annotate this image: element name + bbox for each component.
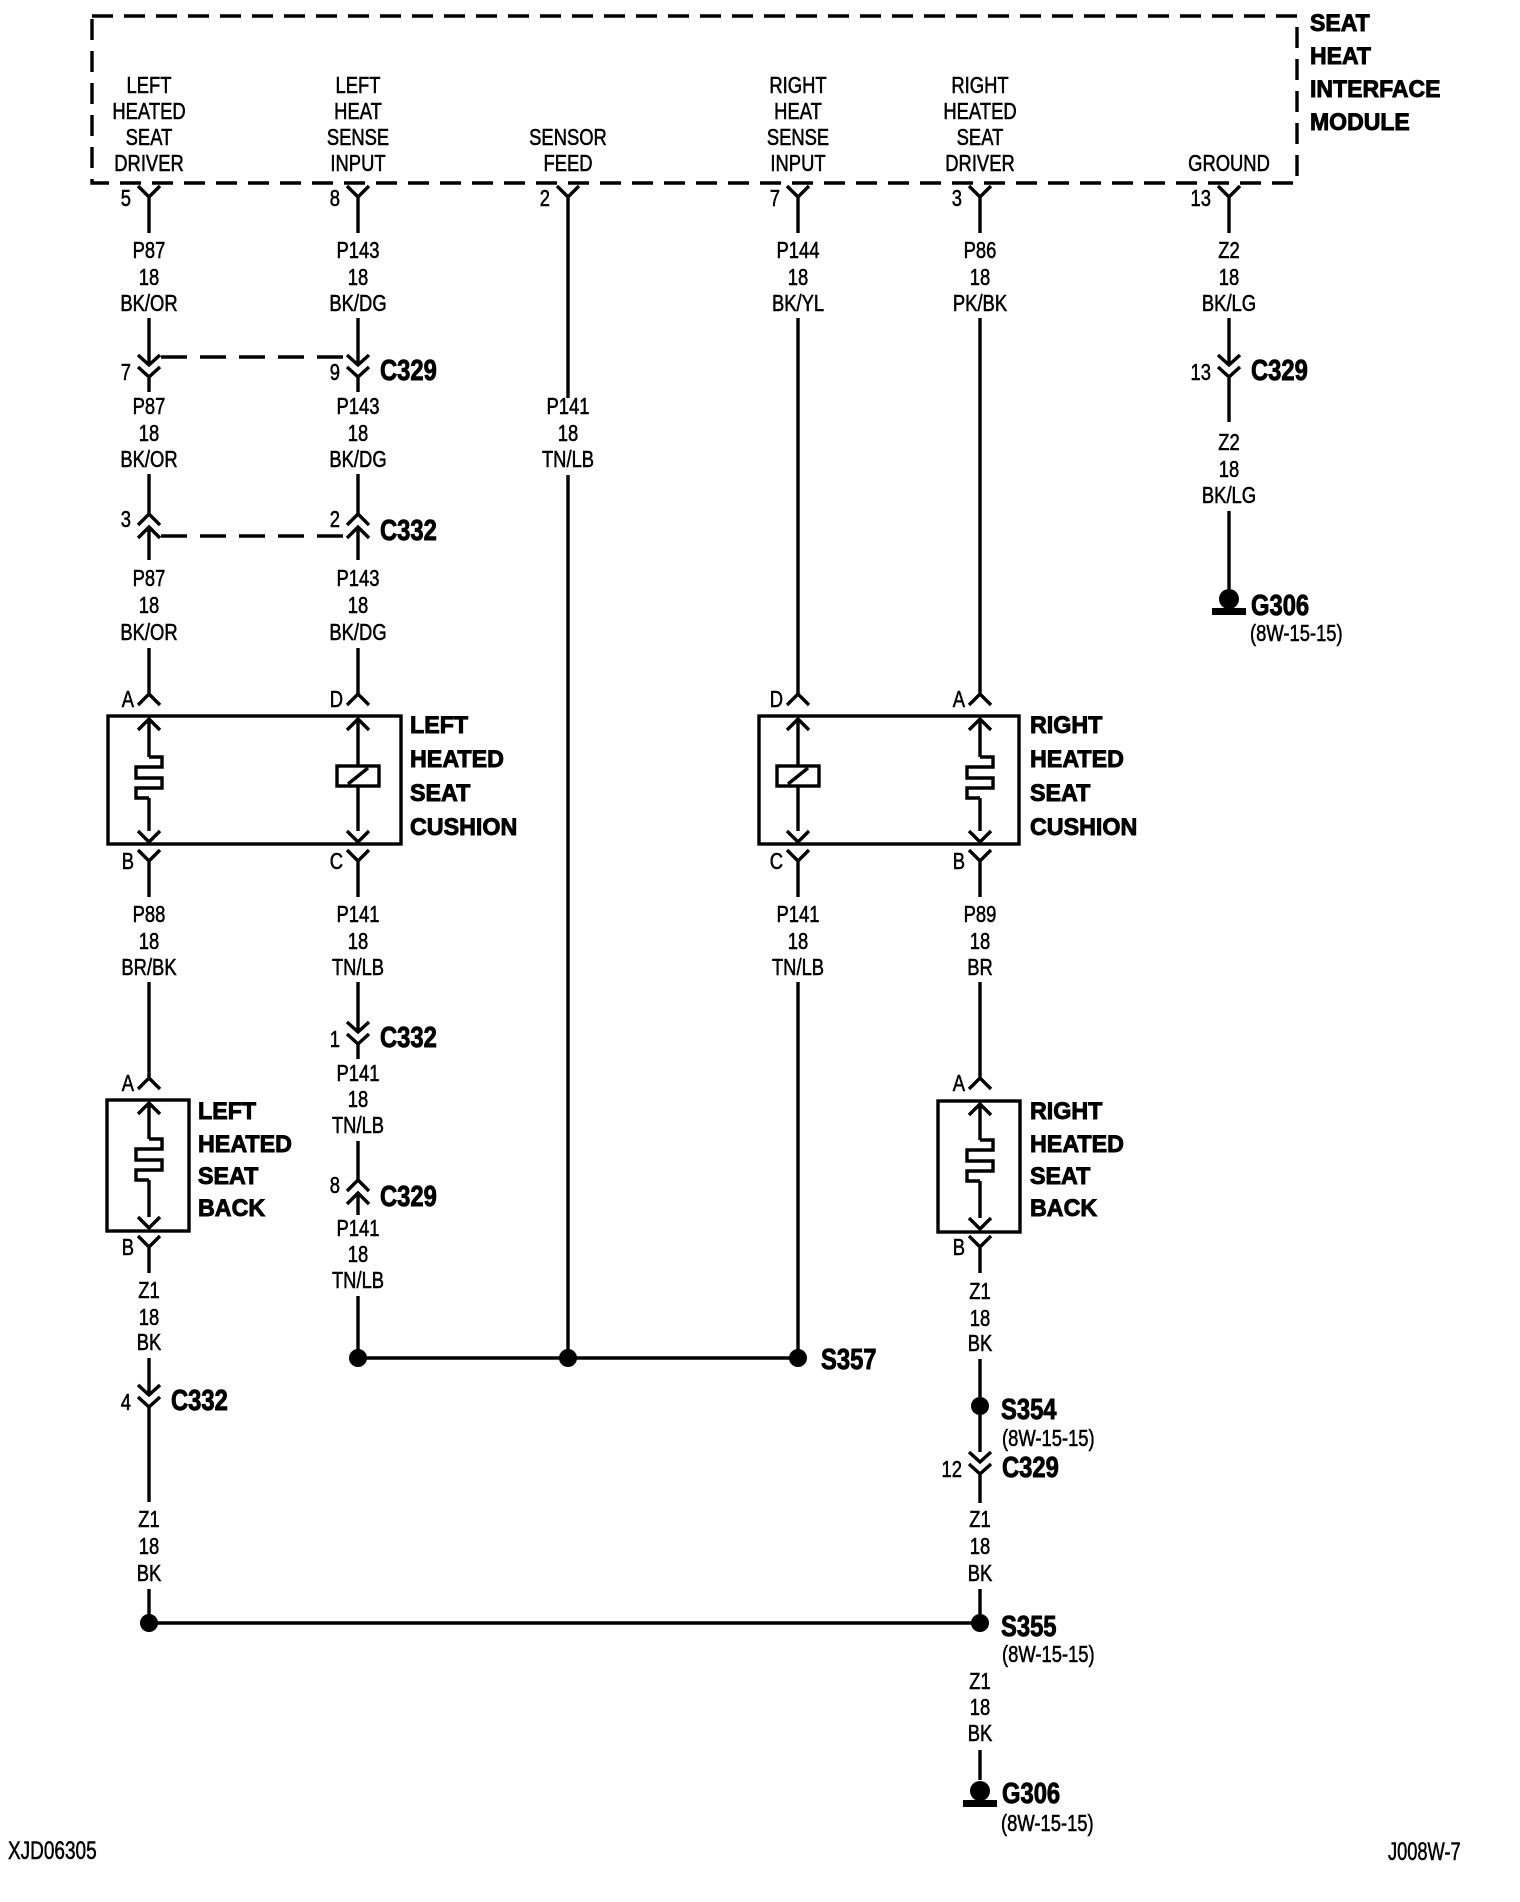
svg-text:1: 1	[330, 1027, 340, 1052]
svg-text:BK/LG: BK/LG	[1202, 483, 1256, 508]
component RIGHT HEATED SEAT BACK	[938, 1101, 1020, 1232]
pin 8 LEFT HEAT SENSE INPUT	[330, 186, 369, 233]
svg-text:(8W-15-15): (8W-15-15)	[1250, 621, 1343, 646]
splice S355	[140, 1610, 1095, 1668]
svg-text:SEAT: SEAT	[1310, 10, 1370, 37]
wire P87 to C332	[147, 474, 150, 514]
pin 7 RIGHT HEAT SENSE INPUT	[770, 186, 809, 233]
connector C329 pin 7	[121, 355, 160, 392]
svg-text:A: A	[953, 1071, 965, 1096]
svg-text:HEATED: HEATED	[943, 99, 1016, 124]
wire Z1 to S355	[147, 1589, 150, 1615]
svg-text:18: 18	[970, 1534, 990, 1559]
wire P143 to C329	[356, 318, 359, 365]
node A: right back pin A	[953, 1071, 991, 1096]
svg-text:HEATED: HEATED	[1030, 747, 1124, 773]
wire Z1 below C329	[978, 1489, 981, 1503]
svg-text:SENSE: SENSE	[767, 125, 829, 150]
svg-text:P144: P144	[777, 238, 820, 263]
node label SENSOR FEED	[529, 125, 607, 176]
svg-text:B: B	[122, 849, 134, 874]
svg-text:SEAT: SEAT	[410, 781, 471, 807]
svg-text:Z2: Z2	[1218, 430, 1239, 455]
wire P87 to left cushion pin A	[147, 648, 150, 694]
svg-text:BK/DG: BK/DG	[329, 447, 386, 472]
svg-text:DRIVER: DRIVER	[945, 151, 1014, 176]
svg-text:18: 18	[139, 421, 159, 446]
svg-text:D: D	[330, 687, 343, 712]
svg-text:DRIVER: DRIVER	[114, 151, 183, 176]
svg-text:LEFT: LEFT	[336, 73, 381, 98]
svg-text:INPUT: INPUT	[330, 151, 385, 176]
node label GROUND	[1188, 151, 1270, 176]
svg-text:BK/DG: BK/DG	[329, 620, 386, 645]
node B: right back pin B	[953, 1235, 991, 1273]
svg-text:P143: P143	[337, 394, 380, 419]
svg-text:18: 18	[558, 421, 578, 446]
svg-text:HEATED: HEATED	[112, 99, 185, 124]
svg-text:C329: C329	[1251, 354, 1308, 387]
svg-text:18: 18	[139, 929, 159, 954]
svg-text:SEAT: SEAT	[1030, 781, 1091, 807]
svg-text:P143: P143	[337, 238, 380, 263]
wire P88 to left back pin A	[147, 982, 150, 1078]
module title	[1310, 10, 1441, 136]
svg-text:SENSOR: SENSOR	[529, 125, 607, 150]
wire label P143 18 BK/DG (2)	[329, 394, 386, 472]
svg-text:A: A	[122, 687, 134, 712]
ground G306 top	[1212, 589, 1343, 647]
svg-text:18: 18	[348, 929, 368, 954]
svg-text:2: 2	[540, 186, 550, 211]
pin 3 RIGHT HEATED SEAT DRIVER output	[952, 186, 991, 233]
svg-text:18: 18	[348, 1242, 368, 1267]
svg-text:LEFT: LEFT	[410, 713, 469, 739]
svg-text:HEAT: HEAT	[1310, 43, 1372, 70]
svg-text:BK: BK	[968, 1561, 993, 1586]
svg-text:13: 13	[1191, 360, 1211, 385]
wire label P143 18 BK/DG (3)	[329, 566, 386, 645]
wire label Z1 18 BK left (2)	[137, 1507, 162, 1586]
svg-text:HEAT: HEAT	[334, 99, 382, 124]
svg-text:8: 8	[330, 186, 340, 211]
node A: left back pin A	[122, 1071, 160, 1096]
wire Z2 to ground	[1227, 511, 1230, 589]
svg-text:P143: P143	[337, 566, 380, 591]
svg-text:BACK: BACK	[198, 1196, 265, 1222]
svg-text:BACK: BACK	[1030, 1196, 1097, 1222]
svg-text:BK/OR: BK/OR	[120, 291, 177, 316]
svg-text:BK: BK	[968, 1331, 993, 1356]
wire label P87 18 BK/OR (2)	[120, 394, 177, 472]
svg-text:7: 7	[121, 360, 131, 385]
svg-text:P87: P87	[133, 238, 166, 263]
svg-text:B: B	[122, 1235, 134, 1260]
svg-text:18: 18	[970, 1695, 990, 1720]
wire label P141 18 TN/LB (2)	[332, 1061, 384, 1138]
svg-text:HEAT: HEAT	[774, 99, 822, 124]
svg-text:S355: S355	[1001, 1610, 1056, 1643]
heater element left cushion	[136, 719, 162, 842]
svg-text:HEATED: HEATED	[410, 747, 504, 773]
wire Z1 to S354	[978, 1359, 981, 1397]
svg-text:RIGHT: RIGHT	[951, 73, 1008, 98]
node label LEFT HEATED SEAT DRIVER	[112, 73, 185, 176]
wire P144 to right cushion pin D	[796, 318, 799, 694]
svg-text:Z1: Z1	[969, 1279, 990, 1304]
wire label P144 18 BK/YL	[772, 238, 824, 316]
svg-text:18: 18	[139, 1534, 159, 1559]
svg-text:P141: P141	[337, 902, 380, 927]
svg-text:SEAT: SEAT	[1030, 1164, 1091, 1190]
wire label P143 18 BK/DG (1)	[329, 238, 386, 316]
svg-text:SENSE: SENSE	[327, 125, 389, 150]
svg-text:18: 18	[1219, 457, 1239, 482]
svg-text:GROUND: GROUND	[1188, 151, 1270, 176]
wire label P141 18 TN/LB left	[332, 902, 384, 980]
svg-text:BR: BR	[967, 955, 993, 980]
wire label Z1 18 BK right (3)	[968, 1669, 993, 1746]
svg-text:BK/OR: BK/OR	[120, 447, 177, 472]
wire P141 to C329	[356, 1141, 359, 1180]
svg-text:A: A	[122, 1071, 134, 1096]
svg-text:CUSHION: CUSHION	[410, 815, 517, 841]
svg-text:Z1: Z1	[969, 1507, 990, 1532]
node label RIGHT HEATED SEAT DRIVER	[943, 73, 1016, 176]
svg-text:RIGHT: RIGHT	[1030, 713, 1103, 739]
svg-text:8: 8	[330, 1173, 340, 1198]
svg-text:G306: G306	[1002, 1777, 1060, 1810]
svg-text:P141: P141	[337, 1216, 380, 1241]
svg-text:(8W-15-15): (8W-15-15)	[1002, 1426, 1095, 1451]
connector C329 pin 9	[330, 354, 437, 392]
svg-text:BK/OR: BK/OR	[120, 620, 177, 645]
svg-text:C: C	[330, 849, 343, 874]
connector C332 pin 2	[330, 507, 437, 560]
svg-text:TN/LB: TN/LB	[332, 1268, 384, 1293]
wire label P141 18 TN/LB (3)	[332, 1216, 384, 1293]
svg-text:Z2: Z2	[1218, 238, 1239, 263]
svg-text:P141: P141	[337, 1061, 380, 1086]
svg-text:INPUT: INPUT	[770, 151, 825, 176]
wire P141 to C332	[356, 982, 359, 1032]
wire label Z1 18 BK right (1)	[968, 1279, 993, 1356]
svg-text:18: 18	[348, 265, 368, 290]
svg-text:BK: BK	[968, 1721, 993, 1746]
wire dashed tie C329	[161, 355, 347, 358]
wire label Z2 18 BK/LG (2)	[1202, 430, 1256, 508]
node C: left cushion pin C	[330, 849, 369, 897]
svg-text:12: 12	[942, 1457, 962, 1482]
temperature sensor left cushion	[337, 719, 379, 842]
svg-text:Z1: Z1	[138, 1278, 159, 1303]
svg-text:18: 18	[970, 929, 990, 954]
wire P143 to left cushion pin D	[356, 648, 359, 694]
wire label Z1 18 BK right (2)	[968, 1507, 993, 1586]
wire label P141 18 TN/LB right	[772, 902, 824, 980]
svg-text:G306: G306	[1251, 589, 1309, 622]
connector C332 pin 3	[121, 507, 160, 560]
svg-text:Z1: Z1	[969, 1669, 990, 1694]
svg-text:C329: C329	[1002, 1451, 1059, 1484]
svg-text:BK: BK	[137, 1561, 162, 1586]
svg-text:18: 18	[788, 929, 808, 954]
svg-text:C: C	[770, 849, 783, 874]
wire label P87 18 BK/OR (1)	[120, 238, 177, 316]
svg-text:B: B	[953, 849, 965, 874]
svg-text:MODULE: MODULE	[1310, 109, 1410, 136]
svg-text:18: 18	[139, 593, 159, 618]
node D: right cushion pin D	[770, 687, 809, 712]
svg-text:HEATED: HEATED	[198, 1132, 292, 1158]
svg-text:S354: S354	[1001, 1393, 1057, 1426]
wire Z1 to C329 pin 12	[978, 1415, 981, 1452]
svg-text:TN/LB: TN/LB	[332, 955, 384, 980]
wire P87 to C329	[147, 318, 150, 365]
wire Z1 to G306	[978, 1750, 981, 1780]
svg-text:2: 2	[330, 507, 340, 532]
node A: right cushion pin A	[953, 687, 991, 712]
wire Z1 to C332	[147, 1358, 150, 1395]
svg-text:P141: P141	[777, 902, 820, 927]
node A: left cushion pin A	[122, 687, 160, 712]
wire dashed tie C332	[161, 534, 347, 537]
connector C329 pin 12	[942, 1451, 1059, 1489]
svg-text:18: 18	[139, 1305, 159, 1330]
svg-text:Z1: Z1	[138, 1507, 159, 1532]
wire Z2 below C329 pin 13	[1227, 392, 1230, 422]
svg-text:SEAT: SEAT	[126, 125, 173, 150]
svg-text:7: 7	[770, 186, 780, 211]
svg-text:B: B	[953, 1235, 965, 1260]
wire label P89 18 BR	[964, 902, 997, 980]
wire label P141 18 TN/LB feed	[542, 394, 594, 472]
heater element right seat back	[967, 1104, 993, 1229]
connector C332 pin 4	[121, 1384, 228, 1422]
svg-text:3: 3	[952, 186, 962, 211]
heater element right cushion	[967, 719, 993, 842]
svg-text:D: D	[770, 687, 783, 712]
wire label P87 18 BK/OR (3)	[120, 566, 177, 645]
svg-text:BK: BK	[137, 1330, 162, 1355]
splice S357	[349, 1343, 876, 1376]
svg-text:RIGHT: RIGHT	[1030, 1099, 1103, 1125]
connector C329 pin 13	[1191, 354, 1308, 392]
svg-text:P86: P86	[964, 238, 997, 263]
wire P141 to S357	[356, 1296, 359, 1350]
node C: right cushion pin C	[770, 849, 809, 897]
svg-text:P88: P88	[133, 902, 166, 927]
wire Z1 below C332	[147, 1422, 150, 1502]
wire label Z1 18 BK left (1)	[137, 1278, 162, 1355]
heater element left seat back	[136, 1103, 162, 1228]
svg-text:(8W-15-15): (8W-15-15)	[1002, 1642, 1095, 1667]
module SEAT HEAT INTERFACE MODULE (dashed outline)	[92, 16, 1297, 183]
svg-text:P141: P141	[547, 394, 590, 419]
svg-text:18: 18	[970, 1306, 990, 1331]
node label RIGHT HEAT SENSE INPUT	[767, 73, 829, 176]
wire P86 to right cushion pin A	[978, 318, 981, 694]
svg-text:18: 18	[139, 265, 159, 290]
pin 5 LEFT HEATED SEAT DRIVER output	[121, 186, 160, 233]
svg-text:3: 3	[121, 507, 131, 532]
wire label Z2 18 BK/LG (1)	[1202, 238, 1256, 316]
connector C329 pin 8	[330, 1173, 437, 1215]
node D: left cushion pin D	[330, 687, 369, 712]
component RIGHT HEATED SEAT CUSHION	[759, 716, 1019, 844]
svg-text:18: 18	[788, 265, 808, 290]
wire P141 sensor feed to S357	[566, 475, 569, 1350]
svg-text:FEED: FEED	[543, 151, 592, 176]
svg-text:P87: P87	[133, 566, 166, 591]
svg-text:5: 5	[121, 186, 131, 211]
wire Z2 to C329	[1227, 318, 1230, 365]
connector C332 pin 1	[330, 1021, 437, 1059]
svg-text:TN/LB: TN/LB	[772, 955, 824, 980]
svg-text:INTERFACE: INTERFACE	[1310, 76, 1441, 103]
svg-text:BK/DG: BK/DG	[329, 291, 386, 316]
svg-text:SEAT: SEAT	[957, 125, 1004, 150]
svg-text:9: 9	[330, 360, 340, 385]
svg-text:C332: C332	[380, 1021, 437, 1054]
node label LEFT HEAT SENSE INPUT	[327, 73, 389, 176]
svg-text:18: 18	[970, 265, 990, 290]
wire label P86 18 PK/BK	[953, 238, 1007, 316]
component LEFT HEATED SEAT CUSHION	[108, 716, 401, 844]
wire P141 to S357	[796, 982, 799, 1350]
svg-text:PK/BK: PK/BK	[953, 291, 1007, 316]
svg-text:BR/BK: BR/BK	[121, 955, 176, 980]
svg-text:(8W-15-15): (8W-15-15)	[1001, 1811, 1094, 1836]
svg-text:18: 18	[348, 593, 368, 618]
wire P141 sensor feed upper	[566, 233, 569, 398]
svg-text:P89: P89	[964, 902, 997, 927]
svg-text:S357: S357	[821, 1343, 876, 1376]
wire P89 to right back pin A	[978, 982, 981, 1078]
pin 13 GROUND	[1191, 186, 1240, 233]
pin 2 SENSOR FEED	[540, 186, 579, 233]
splice S354	[971, 1393, 1095, 1452]
node B: left cushion pin B	[122, 849, 160, 897]
svg-text:13: 13	[1191, 186, 1211, 211]
temperature sensor right cushion	[777, 719, 819, 842]
svg-text:C332: C332	[380, 514, 437, 547]
svg-text:18: 18	[348, 421, 368, 446]
svg-text:TN/LB: TN/LB	[332, 1113, 384, 1138]
svg-text:18: 18	[348, 1087, 368, 1112]
svg-text:TN/LB: TN/LB	[542, 447, 594, 472]
node B: left back pin B	[122, 1235, 160, 1273]
svg-text:J008W-7: J008W-7	[1388, 1837, 1461, 1866]
svg-text:RIGHT: RIGHT	[769, 73, 826, 98]
svg-text:A: A	[953, 687, 965, 712]
svg-text:C329: C329	[380, 1180, 437, 1213]
wire Z1 to S355	[978, 1589, 981, 1614]
svg-text:BK/YL: BK/YL	[772, 291, 824, 316]
svg-text:XJD06305: XJD06305	[8, 1836, 97, 1864]
svg-text:4: 4	[121, 1390, 131, 1415]
node B: right cushion pin B	[953, 849, 991, 897]
wire P143 to C332	[356, 474, 359, 514]
svg-text:LEFT: LEFT	[198, 1099, 257, 1125]
svg-text:CUSHION: CUSHION	[1030, 815, 1137, 841]
svg-text:C332: C332	[171, 1384, 228, 1417]
svg-text:18: 18	[1219, 265, 1239, 290]
svg-text:SEAT: SEAT	[198, 1164, 259, 1190]
svg-text:P87: P87	[133, 394, 166, 419]
svg-text:C329: C329	[380, 354, 437, 387]
component LEFT HEATED SEAT BACK	[107, 1100, 189, 1231]
svg-text:HEATED: HEATED	[1030, 1132, 1124, 1158]
svg-text:BK/LG: BK/LG	[1202, 291, 1256, 316]
ground G306 bottom	[963, 1777, 1094, 1837]
svg-text:LEFT: LEFT	[127, 73, 172, 98]
wire label P88 18 BR/BK	[121, 902, 176, 980]
